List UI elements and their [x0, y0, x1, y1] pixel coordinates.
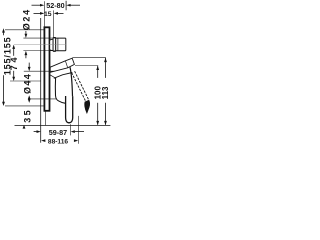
- dim 52-80 left ext: [43, 1, 45, 27]
- body right edge: [70, 67, 73, 96]
- escutcheon plate (edge view): [44, 27, 49, 111]
- arrowhead 15 right: [54, 12, 58, 15]
- svg-text:59-87: 59-87: [49, 128, 67, 137]
- arrowhead 52-80 left: [40, 4, 44, 7]
- arrowhead 100 top: [96, 66, 99, 70]
- knob inner line: [57, 38, 59, 50]
- arrowhead 88-116 left: [41, 139, 45, 142]
- dim 59-87 shafts: [34, 131, 38, 133]
- floor line: [15, 125, 111, 127]
- arrowhead 155 top: [2, 28, 5, 32]
- lever down tip: [85, 100, 90, 113]
- dim 100 ext top: [75, 65, 98, 67]
- stub line below escutcheon: [45, 111, 47, 125]
- arrowhead 74 bottom: [12, 77, 15, 81]
- dim O44 shaft: [28, 63, 30, 68]
- arrowhead 113 top: [104, 58, 107, 62]
- arrowhead O44 top: [28, 67, 31, 71]
- arrowhead O24 bottom: [25, 51, 28, 55]
- handle knob: [56, 38, 66, 51]
- body connector to plate: [50, 75, 56, 78]
- svg-text:15: 15: [44, 11, 52, 18]
- arrowhead 100 bottom: [96, 121, 99, 125]
- dim 52-80 shafts: [32, 4, 42, 6]
- arrowhead O44 below down: [28, 99, 31, 103]
- arrowhead 88-116 right: [74, 139, 78, 142]
- dim O24 ext bottom: [23, 50, 55, 52]
- arrowhead O44 bottom up: [28, 95, 31, 99]
- arrowhead 74 top: [12, 45, 15, 49]
- dim 74 line segments: [13, 48, 15, 56]
- dim 100 line segments: [97, 66, 99, 78]
- arrowhead 35 bottom: [23, 125, 26, 129]
- svg-text:74: 74: [9, 55, 19, 71]
- dim 113 ext top: [73, 57, 106, 59]
- dim 155/155 ext bottom: [5, 105, 44, 107]
- dim 88-116 right ext: [77, 116, 79, 144]
- lever knob inner edge: [65, 61, 67, 68]
- body left and bottom: [55, 78, 65, 104]
- handle plate: [53, 38, 56, 52]
- dim 155/155 ext top: [5, 29, 44, 31]
- lever (up position): [50, 58, 74, 72]
- spout tube: [66, 96, 73, 123]
- dim 59-87 right ext: [70, 124, 72, 135]
- dim O24 shafts: [25, 31, 27, 35]
- dim 113 line segments: [105, 58, 107, 78]
- svg-text:35: 35: [23, 108, 33, 123]
- wall line: [40, 18, 42, 143]
- arrowhead 15 left: [40, 12, 44, 15]
- dim O24 ext top: [23, 37, 55, 39]
- dashed lever swing line A: [72, 73, 86, 102]
- handle centerline: [14, 43, 66, 45]
- svg-text:Ø44: Ø44: [22, 73, 32, 94]
- svg-text:Ø24: Ø24: [21, 8, 31, 30]
- svg-text:88-116: 88-116: [48, 139, 69, 146]
- handle neck: [50, 39, 53, 50]
- body top edge: [54, 73, 73, 79]
- dim O44 ext top: [24, 70, 56, 72]
- dim 15 right ext: [53, 10, 55, 37]
- arrowhead 59-87 right: [71, 130, 75, 133]
- arrowhead O24 top: [25, 34, 28, 38]
- arrowhead 155 bottom: [2, 102, 5, 106]
- svg-text:113: 113: [101, 86, 110, 99]
- arrowhead 52-80 right: [66, 4, 70, 7]
- dim 74 ext bottom: [10, 80, 41, 82]
- dashed lever swing line B: [75, 71, 89, 100]
- dim 15 shafts: [34, 12, 42, 14]
- dim 155/155 line segments: [3, 32, 5, 36]
- dim O44 ext bottom: [29, 98, 57, 100]
- arrowhead 59-87 left: [37, 130, 41, 133]
- dim 52-80 right tick: [65, 1, 67, 10]
- arrowhead 113 bottom: [104, 121, 107, 125]
- svg-text:52-80: 52-80: [46, 1, 64, 10]
